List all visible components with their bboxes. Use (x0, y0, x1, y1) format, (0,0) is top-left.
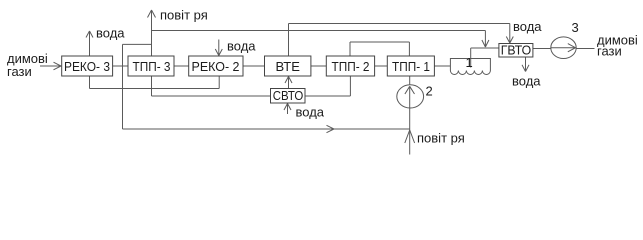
wire: recirculation top jog to air riser (123, 43, 152, 45)
wire: main gas row TPP-2 to TPP-1 (375, 65, 388, 67)
heat exchanger TPP-2 box (326, 56, 374, 76)
arrow: povitria exhaust up from TPP-3 riser (148, 10, 156, 56)
svg-text:РЕКО- 3: РЕКО- 3 (64, 59, 110, 74)
heat exchanger SVTO box (271, 89, 306, 104)
svg-text:вода: вода (512, 74, 541, 89)
wire: recirculation bottom line h2 with right arrow (123, 125, 410, 132)
wire: TPP-2 top leg to loop (349, 42, 351, 56)
wire: TPP-1 bottom to fan 2 (409, 76, 411, 85)
arrow: voda up into SVTO bottom (284, 104, 291, 115)
arrow inside fan 2 (405, 86, 415, 108)
wire: TPP-1 top leg from loop (408, 42, 410, 56)
wire: TPP-3 bottom leg (151, 76, 153, 96)
wire: REKO-3 bottom leg (89, 76, 91, 89)
svg-text:ГВТО: ГВТО (501, 43, 532, 58)
wire: upper water line y23.5 VTE to GVTO (289, 23, 510, 25)
wire: TPP-2 bottom leg (349, 76, 351, 96)
wire: fan 2 bottom column down (409, 108, 411, 155)
svg-text:вода: вода (227, 39, 256, 54)
svg-text:вода: вода (96, 26, 125, 41)
svg-text:РЕКО- 2: РЕКО- 2 (192, 59, 240, 74)
svg-text:гази: гази (7, 64, 32, 79)
svg-text:1: 1 (466, 55, 473, 70)
heat exchanger REKO-2 box (189, 56, 243, 76)
wire: air loop TPP-2 to TPP-1 over top (350, 41, 409, 43)
wire: dymovi gazy inlet arrow into REKO-3 (40, 62, 61, 70)
wire: main gas row TPP-1 to unit 1 (434, 65, 450, 67)
wire: SVTO line left segment (152, 95, 271, 97)
wire: VTE top riser (288, 24, 290, 57)
wire: duct unit1 to GVTO left (471, 47, 499, 49)
wire: REKO-2 bottom leg (218, 76, 220, 89)
heat exchanger TPP-1 box (387, 56, 434, 76)
wire: main gas row REKO-2 to VTE (243, 65, 265, 67)
fan 2 circle (397, 85, 424, 108)
heat exchanger REKO-3 box (62, 56, 113, 76)
svg-text:ТПП- 3: ТПП- 3 (133, 59, 171, 74)
arrow: voda up out of REKO-3 top (86, 31, 93, 56)
wire: recirculation left vertical x122.5 (122, 44, 124, 129)
wire: upper air line y30.5 riser to down-arrow (152, 30, 486, 32)
svg-text:2: 2 (426, 84, 433, 99)
svg-text:ТПП- 1: ТПП- 1 (392, 59, 430, 74)
heat exchanger TPP-3 box (128, 56, 174, 76)
arrow: voda down into REKO-2 top (215, 40, 222, 56)
svg-text:ТПП- 2: ТПП- 2 (332, 59, 370, 74)
wire: SVTO line right segment (305, 95, 350, 97)
svg-text:вода: вода (296, 105, 325, 120)
arrow inside fan 3 (551, 44, 576, 52)
wire: dip pipe into unit 1 (470, 48, 472, 68)
wire: main gas row VTE to TPP-2 (311, 65, 326, 67)
arrow: air drop into duct before GVTO (482, 31, 489, 48)
fan 3 circle (551, 37, 576, 59)
arrow: povitria up into junction below h2 (405, 130, 415, 143)
heat exchanger VTE box (265, 56, 311, 76)
wire: water line h1 REKO-3 to REKO-2 (90, 88, 220, 90)
svg-text:повіт ря: повіт ря (160, 8, 208, 23)
svg-text:повіт ря: повіт ря (417, 131, 465, 146)
arrow: voda down out of GVTO bottom (522, 57, 529, 72)
svg-text:вода: вода (513, 19, 542, 34)
unit 1 stack with wavy bottom (450, 59, 490, 75)
heat exchanger GVTO box (499, 44, 533, 58)
svg-text:СВТО: СВТО (273, 88, 304, 103)
wire: fan 3 to dymovi gazy outlet (576, 48, 594, 50)
wire: main gas row TPP-3 to REKO-2 (174, 65, 189, 67)
svg-text:3: 3 (572, 20, 579, 35)
svg-text:гази: гази (597, 44, 622, 59)
wire: GVTO right to fan 3 (533, 48, 551, 50)
arrow: voda down into GVTO top (506, 24, 513, 44)
svg-text:ВТЕ: ВТЕ (276, 59, 301, 74)
wire: main gas row REKO-3 to TPP-3 (113, 65, 128, 67)
arrow: SVTO to VTE bottom (285, 77, 292, 89)
